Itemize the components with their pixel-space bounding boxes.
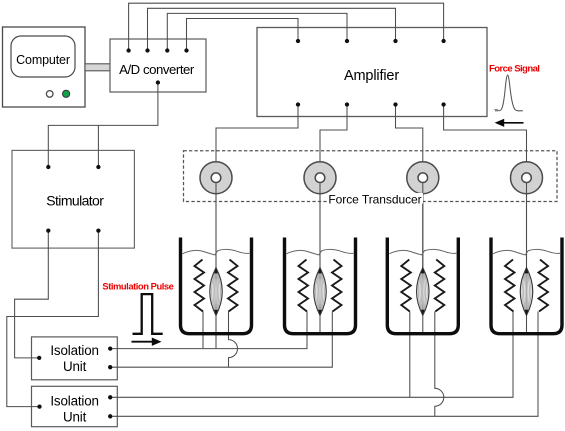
force transducer label: [327, 192, 423, 206]
bath 1 left electrode zigzag: [195, 260, 205, 312]
svg-text:Force Signal: Force Signal: [489, 63, 539, 74]
wire A/D pin 1 to amplifier pin 4: [129, 3, 444, 50]
svg-text:Isolation: Isolation: [50, 393, 99, 408]
bath 4 left electrode zigzag: [505, 260, 515, 312]
bath 1 beaker walls: [181, 238, 252, 334]
bath 2 muscle lower tether: [319, 316, 321, 334]
bath 4 muscle preparation: [520, 267, 533, 316]
computer box: [3, 27, 86, 107]
svg-text:Force Transducer: Force Transducer: [328, 192, 421, 206]
force transducer 3: [407, 162, 439, 268]
wire A/D bottom pin to stimulator inputs: [48, 83, 158, 168]
bath 3 right electrode zigzag: [435, 260, 445, 312]
bath 2 muscle preparation: [314, 267, 327, 316]
wire A/D pin 3 to amplifier pin 2: [167, 13, 347, 50]
bath 3 beaker walls: [387, 238, 458, 334]
bath 2 left electrode zigzag: [299, 260, 309, 312]
wire isolation unit 2 output A (bath3 left electrode, bath4 left electrode): [110, 312, 513, 398]
organ bath 1 water line: [183, 249, 250, 254]
stimulation pulse direction arrow: [132, 338, 162, 346]
computer screen: [11, 36, 75, 77]
computer LED white: [46, 91, 53, 98]
wire bath3 right electrode stub with hop over wire C: [435, 312, 444, 417]
wire isolation unit 1 output B (bath1 right electrode, bath2 right electrode): [110, 312, 332, 368]
amplifier box: [257, 28, 487, 117]
organ bath 2 water line: [287, 249, 354, 254]
stimulator pin dots: [46, 165, 100, 233]
wire bath3 left electrode stub: [409, 312, 411, 398]
bath 4 right electrode zigzag: [539, 260, 549, 312]
stimulation pulse waveform: [133, 294, 163, 334]
wire amplifier output 2 to force transducer 2 / transducer rod: [320, 105, 347, 269]
organ bath 4 water line: [493, 249, 560, 254]
amplifier pin dots: [296, 39, 446, 107]
force transducer 1: [200, 162, 232, 268]
force transducer 4: [511, 162, 543, 268]
force signal direction arrow: [495, 119, 524, 127]
svg-text:Stimulation Pulse: Stimulation Pulse: [102, 281, 173, 292]
wire amplifier output 3 to force transducer 3 / transducer rod: [396, 105, 423, 269]
bath 2 right electrode zigzag: [332, 260, 342, 312]
force signal label: [489, 63, 539, 74]
wire A/D pin 4 to amplifier pin 1: [187, 19, 299, 51]
svg-text:Stimulator: Stimulator: [46, 193, 104, 209]
wire isolation unit 2 output B (bath3 right electrode, bath4 right electrode): [110, 312, 538, 417]
bath 3 left electrode zigzag: [401, 260, 411, 312]
isolation unit 2 box: [32, 386, 118, 426]
svg-text:A/D converter: A/D converter: [119, 62, 195, 77]
force signal waveform: [494, 75, 523, 111]
svg-text:Isolation: Isolation: [50, 343, 99, 358]
bath 3 muscle preparation: [417, 267, 430, 316]
svg-text:Unit: Unit: [63, 359, 87, 374]
wire bath1 muscle anchor line: [215, 316, 217, 349]
bath 1 right electrode zigzag: [228, 260, 238, 312]
wire stimulator output 1 to isolation unit 1: [15, 231, 49, 358]
bath 2 beaker walls: [285, 238, 356, 334]
wire isolation unit 1 output A (bath1 electrodes, bath2 left electrode): [110, 312, 307, 349]
isolation unit 2 pin dots: [37, 395, 112, 418]
bath 4 muscle lower tether: [526, 316, 528, 334]
force transducer 2: [304, 162, 336, 268]
isolation unit 1 box: [32, 337, 118, 380]
organ bath 3 water line: [389, 249, 456, 254]
A/D converter pin dots: [126, 48, 188, 84]
A/D converter box U-AD: [110, 39, 206, 92]
stimulation pulse label: [102, 281, 173, 292]
bath 3 muscle lower tether: [422, 316, 424, 334]
svg-text:Computer: Computer: [16, 53, 70, 67]
isolation unit 1 pin dots: [37, 346, 112, 369]
wire amplifier output 4 to force transducer 4 / transducer rod: [444, 105, 527, 269]
cable computer to A/D converter: [85, 64, 110, 71]
bath 4 beaker walls: [491, 238, 562, 334]
wire stimulator output 2 to isolation unit 2: [7, 231, 99, 407]
wire A/D pin 2 to amplifier pin 3: [148, 8, 396, 50]
computer LED green: [63, 90, 70, 97]
bath 1 muscle lower tether: [215, 316, 217, 334]
wire amplifier output 1 to force transducer 1 / transducer rod: [216, 105, 298, 269]
wire bath1 left electrode stub: [202, 312, 204, 349]
wire bath1 right electrode stub with hop over wire A: [229, 312, 238, 368]
force transducer dashed enclosure: [184, 151, 558, 202]
svg-text:Amplifier: Amplifier: [344, 68, 399, 84]
svg-text:Unit: Unit: [63, 410, 87, 425]
bath 1 muscle preparation: [210, 267, 223, 316]
stimulator box: [12, 150, 134, 248]
